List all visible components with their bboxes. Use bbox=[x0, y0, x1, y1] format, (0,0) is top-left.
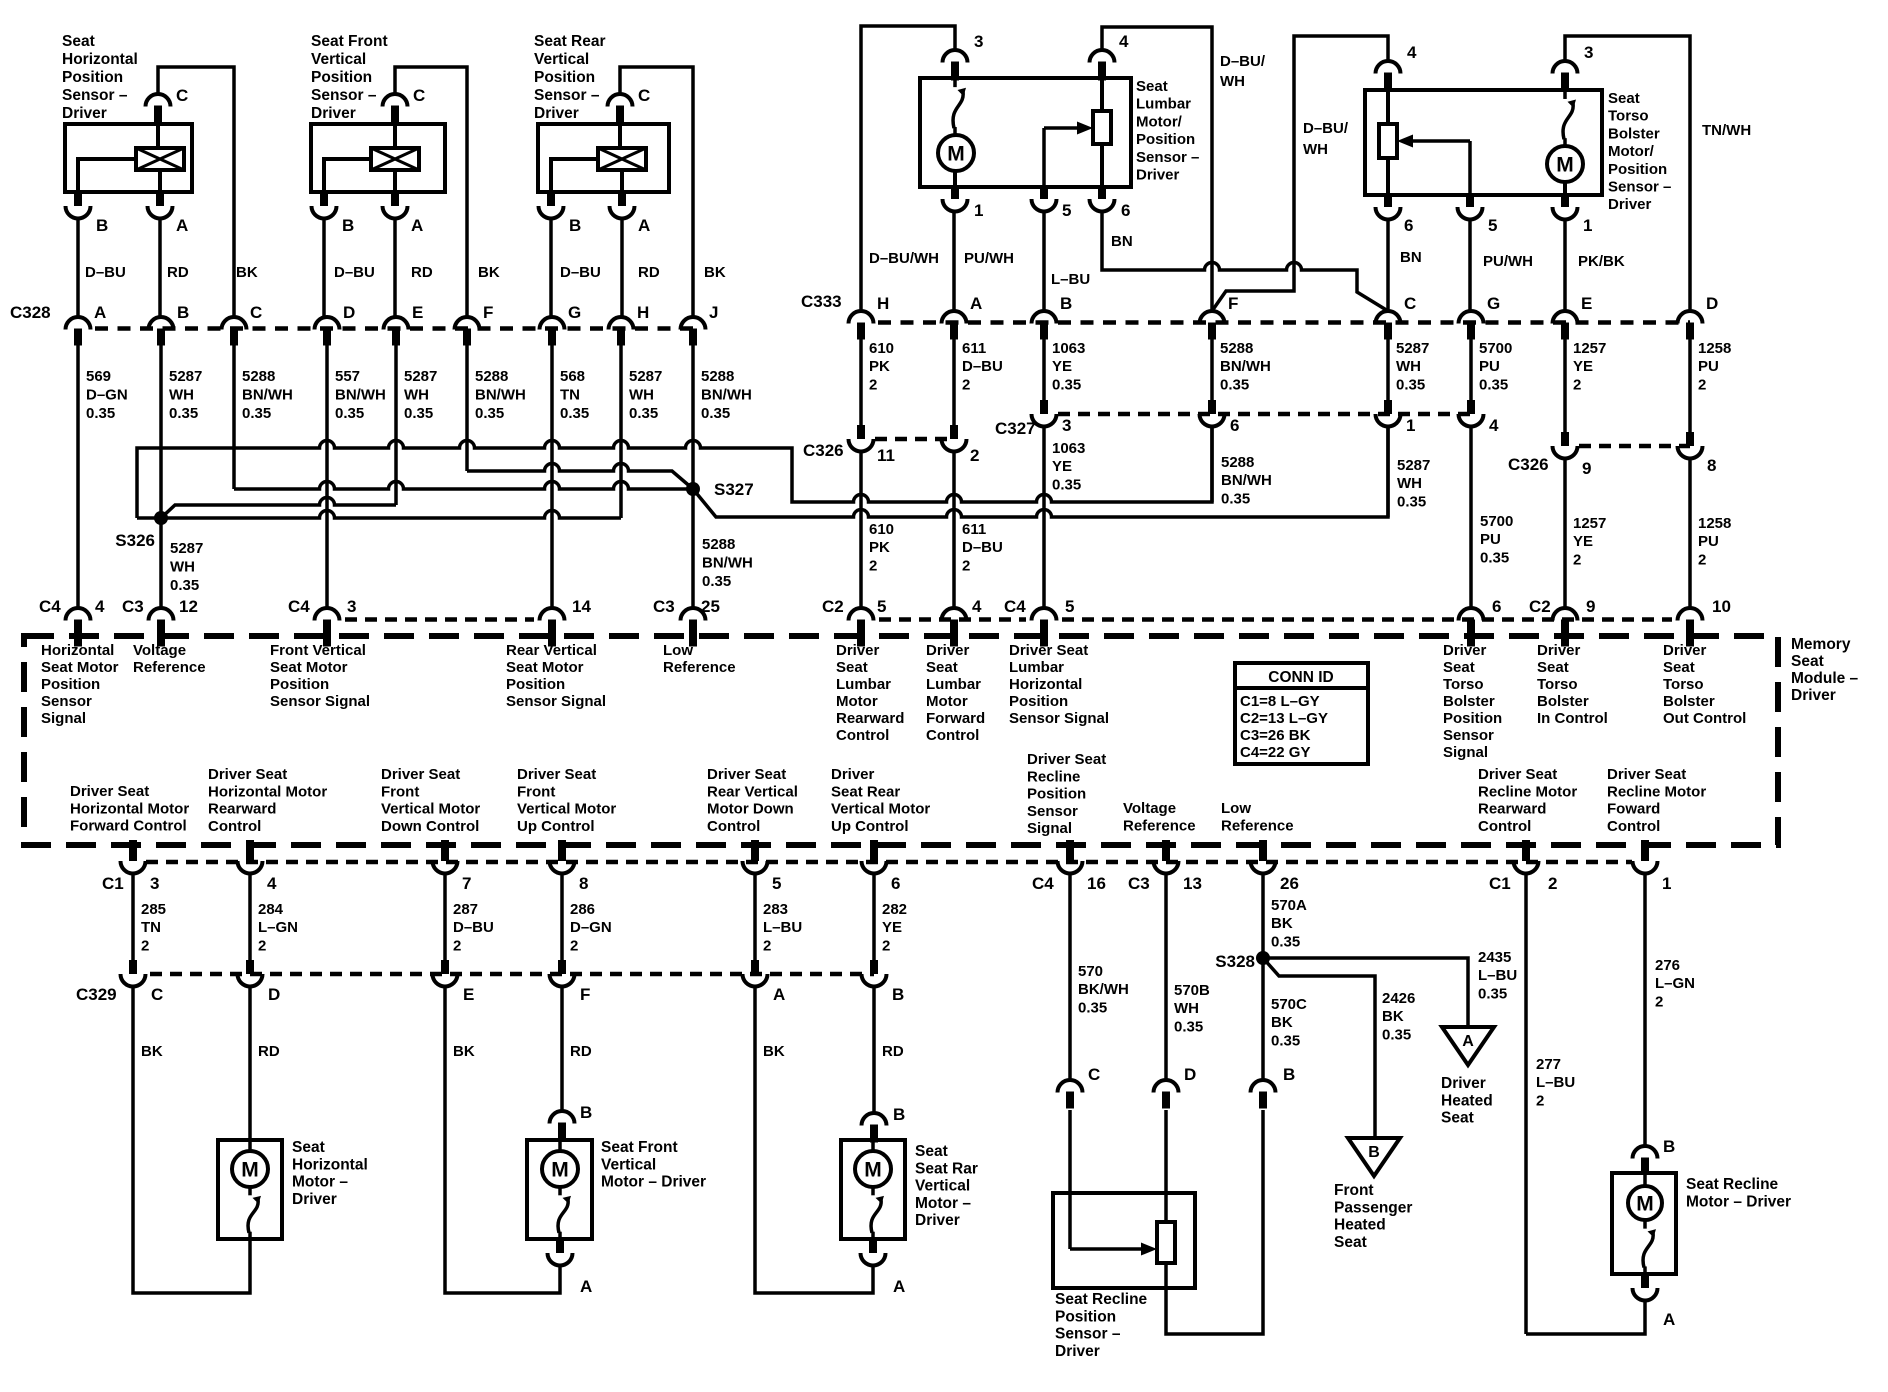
svg-text:B: B bbox=[1368, 1144, 1380, 1161]
svg-text:Sensor –: Sensor – bbox=[1055, 1326, 1121, 1343]
svg-text:Sensor Signal: Sensor Signal bbox=[506, 693, 606, 710]
svg-text:2: 2 bbox=[453, 937, 461, 954]
svg-text:Vertical Motor: Vertical Motor bbox=[831, 801, 930, 818]
rear vertical motor M bbox=[855, 1151, 891, 1187]
svg-text:BN/WH: BN/WH bbox=[701, 387, 752, 404]
svg-text:4: 4 bbox=[1489, 416, 1499, 435]
torso bolster box bbox=[1365, 90, 1602, 195]
svg-text:B: B bbox=[177, 303, 189, 322]
svg-text:L–BU: L–BU bbox=[1478, 967, 1517, 984]
svg-text:0.35: 0.35 bbox=[1174, 1018, 1203, 1035]
svg-text:Rearward: Rearward bbox=[208, 801, 276, 818]
torso wiper arrow from pin 5 bbox=[1413, 139, 1470, 143]
C326 pin 9 bbox=[1561, 432, 1569, 446]
svg-text:B: B bbox=[1663, 1137, 1675, 1156]
svg-text:Horizontal: Horizontal bbox=[62, 51, 138, 68]
svg-text:2: 2 bbox=[258, 937, 266, 954]
svg-text:12: 12 bbox=[179, 597, 198, 616]
svg-text:Rear Vertical: Rear Vertical bbox=[506, 642, 597, 659]
svg-text:Motor/: Motor/ bbox=[1136, 113, 1183, 130]
svg-text:16: 16 bbox=[1087, 874, 1106, 893]
svg-text:Position: Position bbox=[506, 676, 565, 693]
svg-text:Torso: Torso bbox=[1608, 108, 1649, 125]
svg-text:1257: 1257 bbox=[1573, 515, 1606, 532]
svg-text:Up Control: Up Control bbox=[517, 818, 594, 835]
svg-text:C333: C333 bbox=[801, 292, 842, 311]
svg-text:BK: BK bbox=[1271, 1014, 1293, 1031]
svg-text:4: 4 bbox=[95, 597, 105, 616]
svg-text:4: 4 bbox=[267, 874, 277, 893]
torso pin 4 wire (D-BU/WH) to C333 F bbox=[1212, 36, 1388, 311]
lumbar switch symbol bbox=[953, 78, 957, 87]
svg-text:611: 611 bbox=[962, 521, 986, 538]
wire S328 to front passenger heated seat (2426 BK) bbox=[1263, 958, 1375, 1138]
wire C328 A to module pin 4 (569 D-GN) bbox=[76, 345, 80, 608]
svg-text:0.35: 0.35 bbox=[701, 405, 730, 422]
svg-text:5: 5 bbox=[877, 597, 886, 616]
svg-text:Seat: Seat bbox=[1136, 78, 1168, 95]
svg-text:Down Control: Down Control bbox=[381, 818, 479, 835]
lumbar pin 5 bbox=[1040, 187, 1048, 199]
splice S327 bbox=[686, 482, 700, 496]
svg-text:RD: RD bbox=[411, 264, 433, 281]
svg-text:0.35: 0.35 bbox=[1052, 376, 1081, 393]
svg-text:M: M bbox=[864, 1159, 882, 1182]
svg-text:0.35: 0.35 bbox=[1396, 376, 1425, 393]
svg-text:10: 10 bbox=[1712, 597, 1731, 616]
svg-text:B: B bbox=[342, 216, 354, 235]
svg-text:YE: YE bbox=[882, 919, 902, 936]
svg-text:L–BU: L–BU bbox=[763, 919, 802, 936]
svg-text:2: 2 bbox=[1698, 551, 1706, 568]
svg-text:Sensor –: Sensor – bbox=[1136, 149, 1199, 166]
svg-text:Driver Seat: Driver Seat bbox=[1607, 766, 1686, 783]
svg-text:Lumbar: Lumbar bbox=[1009, 659, 1064, 676]
svg-text:Seat Motor: Seat Motor bbox=[41, 659, 119, 676]
svg-text:Seat Rear: Seat Rear bbox=[831, 783, 900, 800]
lumbar pin 4 wire (D-BU/WH) to C333 F bbox=[1102, 27, 1212, 311]
svg-text:Position: Position bbox=[1055, 1308, 1116, 1325]
svg-text:Memory: Memory bbox=[1791, 636, 1851, 653]
module top pin 9 (C2) at x=1565 bbox=[1553, 608, 1578, 621]
svg-text:L–BU: L–BU bbox=[1536, 1074, 1575, 1091]
svg-text:F: F bbox=[1228, 294, 1238, 313]
svg-text:286: 286 bbox=[570, 901, 595, 918]
wire C328 G to module pin 14 (568 TN) bbox=[550, 345, 554, 608]
C328 pin E bbox=[384, 317, 409, 330]
svg-text:277: 277 bbox=[1536, 1056, 1561, 1073]
svg-text:PU: PU bbox=[1479, 358, 1500, 375]
svg-text:2: 2 bbox=[570, 937, 578, 954]
svg-text:Seat: Seat bbox=[292, 1139, 325, 1156]
svg-text:D: D bbox=[343, 303, 355, 322]
connector C328 dashed row bbox=[95, 326, 693, 331]
svg-text:D: D bbox=[1184, 1065, 1196, 1084]
svg-text:C4=22 GY: C4=22 GY bbox=[1240, 744, 1310, 761]
svg-text:Reference: Reference bbox=[1123, 817, 1196, 834]
PS1 pin B bbox=[74, 192, 82, 206]
wire C333 E to C326 pin 9 bbox=[1563, 339, 1567, 432]
svg-text:Driver: Driver bbox=[926, 642, 970, 659]
connector C329 dashed row bbox=[150, 972, 874, 977]
svg-text:BN/WH: BN/WH bbox=[242, 387, 293, 404]
wire module pin 13 to recline sensor pin D (570B WH) bbox=[1164, 875, 1168, 1080]
svg-text:14: 14 bbox=[572, 597, 591, 616]
wire C328 J to module pin 25 (5288 BN/WH) through S327 bbox=[691, 345, 695, 608]
module top pin 6 (same conn) at x=1471 bbox=[1459, 608, 1484, 621]
svg-text:Seat: Seat bbox=[1608, 90, 1640, 107]
svg-text:A: A bbox=[176, 216, 188, 235]
horizontal motor switch bbox=[248, 1187, 252, 1195]
svg-text:Seat: Seat bbox=[1334, 1234, 1367, 1251]
svg-text:Seat: Seat bbox=[915, 1143, 948, 1160]
C329 pin C bbox=[129, 960, 137, 974]
wire C329 B down to rear vertical motor pin B bbox=[872, 985, 876, 1113]
module top pin 25 (C3) at x=693 bbox=[681, 608, 706, 621]
svg-text:C3: C3 bbox=[1128, 874, 1150, 893]
module bottom pin 16 (C4) at x=1070 bbox=[1066, 840, 1074, 861]
svg-text:0.35: 0.35 bbox=[404, 405, 433, 422]
svg-text:570A: 570A bbox=[1271, 897, 1307, 914]
wire C328 E down to bus (5287 WH) bbox=[394, 345, 398, 505]
svg-text:Low: Low bbox=[1221, 800, 1251, 817]
svg-text:A: A bbox=[1663, 1310, 1675, 1329]
module bottom pin 13 (C3) at x=1166 bbox=[1162, 840, 1170, 861]
svg-text:BK/WH: BK/WH bbox=[1078, 981, 1129, 998]
svg-text:A: A bbox=[411, 216, 423, 235]
wire C329 D to horizontal motor bbox=[248, 985, 252, 1140]
svg-text:2: 2 bbox=[1573, 551, 1581, 568]
svg-text:569: 569 bbox=[86, 368, 111, 385]
recline motor switch bbox=[1643, 1220, 1647, 1229]
svg-text:0.35: 0.35 bbox=[335, 405, 364, 422]
svg-text:Sensor: Sensor bbox=[1027, 803, 1078, 820]
svg-text:D–BU: D–BU bbox=[85, 264, 126, 281]
svg-text:Front: Front bbox=[517, 783, 555, 800]
svg-text:Position: Position bbox=[270, 676, 329, 693]
svg-text:0.35: 0.35 bbox=[1271, 1032, 1300, 1049]
C326 pin 8 bbox=[1686, 432, 1694, 446]
svg-text:A: A bbox=[773, 985, 785, 1004]
PS3 pin A wire (RD) to C328 bbox=[620, 217, 624, 317]
svg-text:M: M bbox=[551, 1159, 569, 1182]
C328 pin A bbox=[66, 317, 91, 330]
PS3 pin A bbox=[618, 192, 626, 206]
svg-text:TN: TN bbox=[560, 387, 580, 404]
C328 pin G bbox=[540, 317, 565, 330]
svg-text:Seat: Seat bbox=[1791, 653, 1824, 670]
wire C327 pin 4 to module C2 pin 6 (5700 PU) bbox=[1469, 425, 1473, 608]
svg-text:D–BU: D–BU bbox=[560, 264, 601, 281]
svg-text:Control: Control bbox=[926, 727, 979, 744]
svg-text:Horizontal: Horizontal bbox=[1009, 676, 1082, 693]
lumbar motor box bbox=[920, 78, 1131, 187]
svg-text:2: 2 bbox=[763, 937, 771, 954]
lumbar M lead to pin 1 bbox=[953, 171, 957, 187]
svg-text:BK: BK bbox=[1271, 915, 1293, 932]
lumbar motor M bbox=[938, 135, 974, 171]
C333 pin C bbox=[1376, 311, 1401, 324]
horizontal motor M bbox=[232, 1151, 268, 1187]
C333 pin F bbox=[1200, 311, 1225, 324]
svg-text:0.35: 0.35 bbox=[1480, 549, 1509, 566]
svg-text:Position: Position bbox=[534, 69, 595, 86]
wire S328 to driver heated seat (2435 L-BU) bbox=[1263, 958, 1468, 1027]
svg-text:610: 610 bbox=[869, 521, 894, 538]
svg-text:D–BU/WH: D–BU/WH bbox=[869, 250, 939, 267]
C327 pin 6 bbox=[1208, 400, 1216, 414]
C328 pin D bbox=[315, 317, 340, 330]
svg-text:5287: 5287 bbox=[629, 368, 662, 385]
C333 pin H bbox=[849, 311, 874, 324]
svg-text:5288: 5288 bbox=[475, 368, 508, 385]
lumbar pin 3 wire (D-BU/WH) to C333 H bbox=[861, 26, 955, 311]
svg-text:5: 5 bbox=[1488, 216, 1497, 235]
svg-text:2: 2 bbox=[970, 446, 979, 465]
splice bus C328 F to S327 bbox=[467, 464, 693, 489]
svg-text:C: C bbox=[176, 86, 188, 105]
splice S326 bbox=[154, 511, 168, 525]
svg-text:13: 13 bbox=[1183, 874, 1202, 893]
svg-text:5287: 5287 bbox=[1397, 457, 1430, 474]
svg-text:2426: 2426 bbox=[1382, 990, 1415, 1007]
module top internal dashed link pin3-pin14 bbox=[345, 617, 534, 622]
wire C328 F down to bus (5288 BN/WH) bbox=[465, 345, 469, 471]
torso pin 5 bbox=[1466, 195, 1474, 207]
svg-text:284: 284 bbox=[258, 901, 284, 918]
svg-text:C: C bbox=[413, 86, 425, 105]
module top internal dashed link pin5-pin10 bbox=[1062, 617, 1672, 622]
svg-text:A: A bbox=[1462, 1033, 1474, 1050]
svg-text:D–BU/: D–BU/ bbox=[1303, 120, 1349, 137]
svg-text:C2: C2 bbox=[822, 597, 844, 616]
wire C329 F down to front vertical motor pin B bbox=[560, 985, 564, 1111]
svg-text:285: 285 bbox=[141, 901, 166, 918]
svg-text:1: 1 bbox=[1583, 216, 1592, 235]
svg-text:BK: BK bbox=[141, 1043, 163, 1060]
module top pin 12 (C3) at x=161 bbox=[149, 608, 174, 621]
svg-text:Driver Seat: Driver Seat bbox=[707, 766, 786, 783]
C333 pin G bbox=[1459, 311, 1484, 324]
connector C327 dashed row bbox=[1058, 412, 1471, 417]
CONN ID table bbox=[1235, 663, 1368, 764]
svg-text:0.35: 0.35 bbox=[702, 573, 731, 590]
svg-text:Control: Control bbox=[1607, 818, 1660, 835]
svg-text:Sensor –: Sensor – bbox=[62, 87, 128, 104]
svg-text:0.35: 0.35 bbox=[1479, 376, 1508, 393]
svg-text:5700: 5700 bbox=[1479, 340, 1512, 357]
svg-text:2: 2 bbox=[882, 937, 890, 954]
module top pin 4 (C4) at x=78 bbox=[66, 608, 91, 621]
svg-text:H: H bbox=[637, 303, 649, 322]
svg-text:Signal: Signal bbox=[1443, 744, 1488, 761]
svg-text:Control: Control bbox=[836, 727, 889, 744]
svg-text:5287: 5287 bbox=[1396, 340, 1429, 357]
svg-text:Driver: Driver bbox=[1443, 642, 1487, 659]
module bottom pin 1 (same conn) at x=1645 bbox=[1641, 840, 1649, 861]
C327 pin 4 bbox=[1467, 400, 1475, 414]
PS2 pin A wire (RD) to C328 bbox=[393, 217, 397, 317]
svg-text:Heated: Heated bbox=[1334, 1217, 1386, 1234]
svg-text:TN: TN bbox=[141, 919, 161, 936]
svg-text:YE: YE bbox=[1573, 358, 1593, 375]
svg-text:5287: 5287 bbox=[169, 368, 202, 385]
svg-text:Vertical Motor: Vertical Motor bbox=[381, 801, 480, 818]
svg-text:570C: 570C bbox=[1271, 996, 1307, 1013]
svg-text:D–BU/: D–BU/ bbox=[1220, 53, 1266, 70]
C329 pin B bbox=[870, 960, 878, 974]
svg-text:B: B bbox=[96, 216, 108, 235]
potentiometer element PS1 bbox=[136, 148, 184, 170]
svg-text:5: 5 bbox=[1065, 597, 1074, 616]
torso pin 1 wire (PK/BK) to C333 E bbox=[1563, 218, 1567, 311]
PS3 pin B bbox=[547, 192, 555, 206]
module top pin 10 (same conn) at x=1690 bbox=[1678, 608, 1703, 621]
wire C328 H down to bus (5287 WH) bbox=[619, 345, 623, 518]
svg-text:D–GN: D–GN bbox=[86, 387, 128, 404]
PS1 pin C wire (BK) to C328 bbox=[158, 67, 234, 317]
svg-text:YE: YE bbox=[1052, 458, 1072, 475]
torso pin 3 bbox=[1553, 61, 1578, 74]
wire module pin 26 to splice S328 (570A BK) bbox=[1261, 875, 1265, 958]
svg-text:2: 2 bbox=[1655, 993, 1663, 1010]
svg-text:WH: WH bbox=[1396, 358, 1421, 375]
svg-text:287: 287 bbox=[453, 901, 478, 918]
svg-text:Position: Position bbox=[1027, 786, 1086, 803]
recline motor M bbox=[1628, 1186, 1662, 1220]
svg-text:BN/WH: BN/WH bbox=[702, 555, 753, 572]
svg-text:Vertical Motor: Vertical Motor bbox=[517, 801, 616, 818]
svg-text:2: 2 bbox=[1573, 376, 1581, 393]
svg-text:L–GN: L–GN bbox=[258, 919, 298, 936]
svg-text:8: 8 bbox=[579, 874, 588, 893]
PS1 pin A bbox=[156, 192, 164, 206]
recline motor pin B bbox=[1633, 1146, 1658, 1159]
svg-text:3: 3 bbox=[150, 874, 159, 893]
svg-text:1258: 1258 bbox=[1698, 515, 1731, 532]
svg-text:Reference: Reference bbox=[663, 659, 736, 676]
svg-text:BN: BN bbox=[1111, 233, 1133, 250]
C329 pin E bbox=[441, 960, 449, 974]
position sensor PS2 box bbox=[311, 124, 445, 192]
wire C326 pin 8 to module pin 10 (1258 PU) bbox=[1688, 457, 1692, 608]
module bottom pin 26 (same conn) at x=1263 bbox=[1259, 840, 1267, 861]
svg-text:Control: Control bbox=[1478, 818, 1531, 835]
svg-text:BK: BK bbox=[704, 264, 726, 281]
svg-text:6: 6 bbox=[1121, 201, 1130, 220]
svg-text:5288: 5288 bbox=[701, 368, 734, 385]
svg-text:Motor – Driver: Motor – Driver bbox=[1686, 1193, 1791, 1210]
svg-text:Torso: Torso bbox=[1443, 676, 1484, 693]
module bottom pin 2 (C1) at x=1526 bbox=[1522, 840, 1530, 861]
wire C333 D to C326 pin 8 bbox=[1688, 339, 1692, 432]
svg-text:PU/WH: PU/WH bbox=[1483, 253, 1533, 270]
svg-text:BK: BK bbox=[763, 1043, 785, 1060]
svg-text:E: E bbox=[412, 303, 423, 322]
svg-text:Sensor –: Sensor – bbox=[311, 87, 377, 104]
svg-text:Low: Low bbox=[663, 642, 693, 659]
svg-text:D–BU: D–BU bbox=[962, 539, 1003, 556]
svg-text:PU: PU bbox=[1698, 358, 1719, 375]
svg-text:Control: Control bbox=[707, 818, 760, 835]
svg-text:Motor: Motor bbox=[836, 693, 878, 710]
wire module pin 8 to C329 F (286 D-GN) bbox=[560, 875, 564, 960]
svg-text:1258: 1258 bbox=[1698, 340, 1731, 357]
lumbar wiper arrow from pin 5 bbox=[1044, 126, 1077, 130]
svg-text:Driver: Driver bbox=[1608, 196, 1652, 213]
torso pin 1 bbox=[1561, 195, 1569, 207]
svg-text:L–GN: L–GN bbox=[1655, 975, 1695, 992]
svg-text:C1=8 L–GY: C1=8 L–GY bbox=[1240, 693, 1320, 710]
C327 pin 1 bbox=[1384, 400, 1392, 414]
torso pin 5 wire (PU/WH) to C333 G bbox=[1468, 218, 1472, 311]
svg-text:BN/WH: BN/WH bbox=[1220, 358, 1271, 375]
svg-text:S327: S327 bbox=[714, 480, 754, 499]
module bottom pin 4 (same conn) at x=250 bbox=[246, 840, 254, 861]
wire module pin 5 to C329 A (283 L-BU) bbox=[753, 875, 757, 960]
svg-text:RD: RD bbox=[258, 1043, 280, 1060]
svg-text:4: 4 bbox=[1119, 32, 1129, 51]
PS2 pin A bbox=[391, 192, 399, 206]
svg-text:TN/WH: TN/WH bbox=[1702, 122, 1751, 139]
svg-text:C4: C4 bbox=[1032, 874, 1054, 893]
svg-text:Vertical: Vertical bbox=[601, 1156, 656, 1173]
PS1 pin C bbox=[146, 94, 171, 107]
svg-text:C4: C4 bbox=[39, 597, 61, 616]
rear vertical motor pin A bbox=[869, 1239, 877, 1253]
svg-text:Front: Front bbox=[1334, 1182, 1374, 1199]
front vertical motor pin B bbox=[550, 1111, 575, 1124]
svg-text:B: B bbox=[893, 1105, 905, 1124]
svg-text:WH: WH bbox=[629, 387, 654, 404]
module top pin 5 (C4) at x=1044 bbox=[1032, 608, 1057, 621]
lumbar pin 6 wire (BN) to C333 C bbox=[1102, 210, 1388, 311]
svg-text:Driver Seat: Driver Seat bbox=[517, 766, 596, 783]
svg-text:0.35: 0.35 bbox=[1397, 493, 1426, 510]
rear vertical motor switch bbox=[871, 1187, 875, 1195]
svg-text:WH: WH bbox=[169, 387, 194, 404]
svg-text:Driver: Driver bbox=[1791, 687, 1836, 704]
wire C333 H to C326 pin 11 bbox=[859, 339, 863, 425]
svg-text:9: 9 bbox=[1582, 459, 1591, 478]
C333 pin B bbox=[1032, 311, 1057, 324]
torso potentiometer bbox=[1379, 124, 1397, 158]
svg-text:Seat: Seat bbox=[62, 33, 95, 50]
svg-text:1: 1 bbox=[1662, 874, 1671, 893]
C333 pin E bbox=[1553, 311, 1578, 324]
PS1 pin A wire (RD) to C328 bbox=[158, 217, 162, 317]
wire C326 pin 9 to module C2 pin 9 (1257 YE) bbox=[1563, 457, 1567, 608]
svg-text:Driver Seat: Driver Seat bbox=[70, 783, 149, 800]
position sensor PS1 box bbox=[65, 124, 192, 192]
svg-text:0.35: 0.35 bbox=[1052, 476, 1081, 493]
wire module pin 4 to C329 D (284 L-GN) bbox=[248, 875, 252, 960]
splice bus S326 lower rail to C328 H bbox=[137, 511, 621, 518]
svg-text:A: A bbox=[638, 216, 650, 235]
svg-text:B: B bbox=[580, 1103, 592, 1122]
svg-text:Horizontal Motor: Horizontal Motor bbox=[70, 800, 189, 817]
svg-text:B: B bbox=[1283, 1065, 1295, 1084]
svg-text:S326: S326 bbox=[115, 531, 155, 550]
connector C333 dashed row bbox=[878, 320, 1690, 325]
svg-text:Seat Recline: Seat Recline bbox=[1055, 1291, 1148, 1308]
svg-text:5700: 5700 bbox=[1480, 513, 1513, 530]
svg-text:E: E bbox=[463, 985, 474, 1004]
svg-text:Position: Position bbox=[1136, 131, 1195, 148]
lumbar pin 1 wire (PU/WH) to C333 A bbox=[952, 210, 956, 311]
svg-text:Seat Motor: Seat Motor bbox=[270, 659, 348, 676]
svg-text:BK: BK bbox=[1382, 1008, 1404, 1025]
